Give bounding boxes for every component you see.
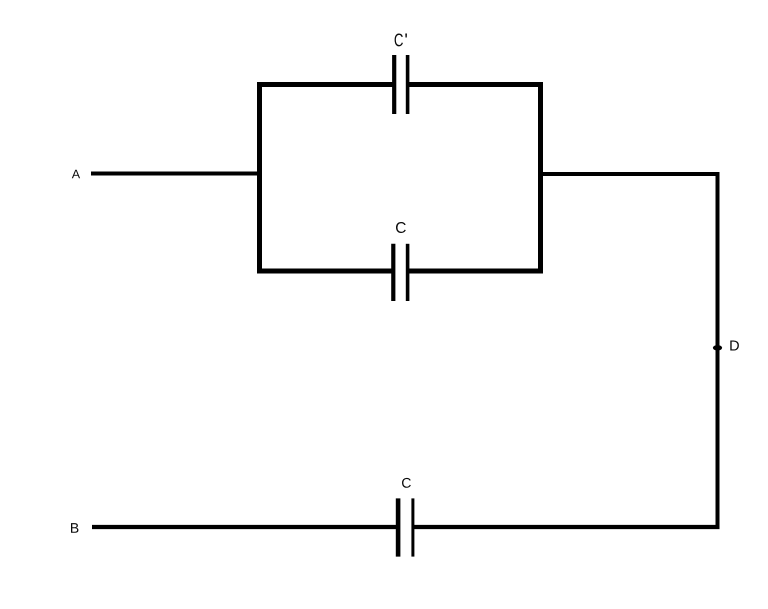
node A bbox=[72, 170, 80, 179]
wire rectangle left edge bbox=[257, 82, 262, 274]
node B bbox=[71, 523, 78, 533]
wire rectangle top edge left segment bbox=[257, 82, 394, 87]
wire right lead from rectangle bbox=[543, 172, 720, 176]
label C bottom bbox=[402, 478, 411, 488]
label C' bbox=[395, 34, 407, 47]
capacitor C (bottom) bbox=[398, 498, 413, 556]
wire rectangle top edge right segment bbox=[408, 82, 543, 87]
wire B left segment bbox=[92, 525, 398, 529]
wire B right segment bbox=[413, 525, 720, 529]
wire A lead bbox=[91, 172, 260, 176]
wire rectangle right edge bbox=[538, 82, 543, 274]
node D junction dot bbox=[713, 345, 722, 351]
label D bbox=[730, 341, 739, 351]
wire rectangle bottom edge left segment bbox=[257, 269, 393, 274]
capacitor C' bbox=[394, 55, 407, 114]
wire rectangle bottom edge right segment bbox=[408, 269, 543, 274]
label C middle bbox=[396, 222, 406, 233]
wire right vertical bbox=[716, 172, 720, 529]
capacitor C (middle) bbox=[393, 244, 407, 301]
